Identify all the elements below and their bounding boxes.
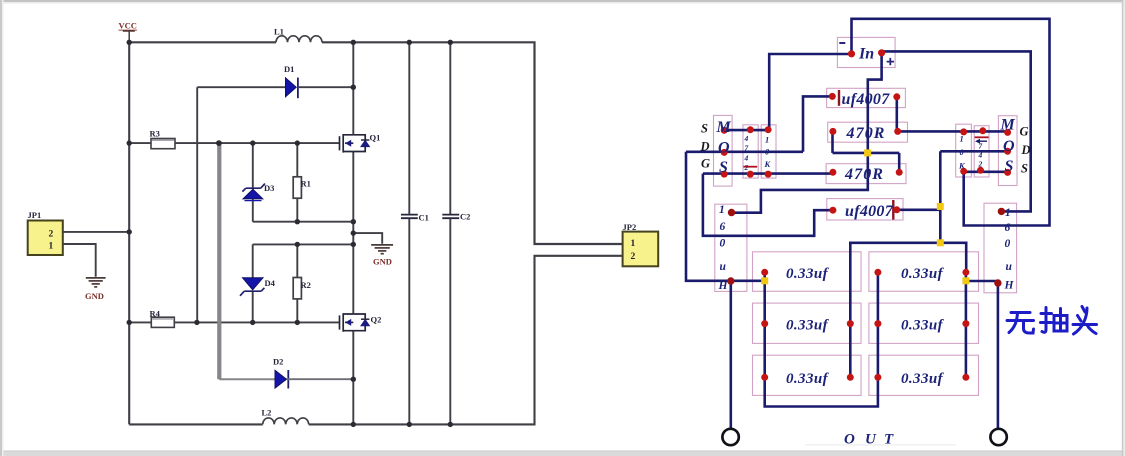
svg-text:O: O [718,140,730,157]
left 4742 digits [744,134,749,172]
zener D4 [240,278,264,296]
char wu [1011,311,1030,314]
left 4742 outline [743,125,758,178]
svg-text:M: M [1000,117,1016,134]
svg-text:M: M [716,119,732,136]
char tou [1082,307,1085,313]
svg-text:L2: L2 [262,408,272,418]
capacitor C1 [401,215,418,219]
inductor L1 [276,36,322,43]
zener band right 742 [975,136,989,138]
svg-text:1: 1 [49,242,54,252]
svg-text:R2: R2 [301,280,311,290]
svg-text:u: u [1006,261,1013,273]
wire: junction column [939,151,942,243]
svg-text:T: T [884,432,894,448]
svg-text:2: 2 [631,252,636,262]
wire: GND branch [353,233,382,244]
diode uf4007 top outline [827,88,906,107]
svg-text:S: S [701,122,708,136]
svg-text:470R: 470R [844,166,884,183]
right 10K digits [958,134,966,171]
svg-text:D: D [1021,143,1031,157]
wire: left MOS D row [686,151,803,154]
right 742 outline [974,126,989,177]
svg-text:R3: R3 [150,129,160,139]
resistor 470R #2 outline [826,164,906,184]
diode band uf4007 top [838,90,840,106]
wire: uf4007-top left pad to D row [803,96,832,151]
left MOS pin names [700,122,711,171]
svg-text:6: 6 [1005,222,1011,234]
right 160uH vertical label [1004,207,1015,292]
svg-text:1: 1 [765,135,769,145]
left 10K outline [761,125,776,178]
ground (JP1) [86,278,106,287]
zener D3 [242,184,265,201]
wire: D3 branch vertical [252,143,254,222]
svg-text:0.33uf: 0.33uf [901,371,945,387]
svg-text:1: 1 [960,134,964,144]
connector In outline [837,37,895,67]
svg-text:JP1: JP1 [28,210,42,220]
power VCC symbol [123,31,135,42]
svg-text:1: 1 [631,239,636,249]
wire: top rail right of L1 [322,42,623,244]
transistor Q2 [340,313,370,332]
resistor R3 [151,139,175,149]
resistor R2 [293,278,301,299]
yellow junctions [761,149,969,284]
svg-text:VCC: VCC [119,21,137,31]
left inductor 160uH outline [715,204,747,291]
svg-text:JP2: JP2 [623,222,637,232]
ground (right of Q1 source node) [371,245,393,254]
wire: bottom rail [129,423,263,425]
faint underline near OUT [805,444,956,445]
connector JP2 [623,232,659,267]
left 160uH vertical label [718,204,729,292]
plus sign [887,58,894,65]
right 10K outline [956,124,972,177]
right MOS designator [1000,117,1016,176]
svg-text:uf4007: uf4007 [842,91,891,108]
wire: R1 branch vertical [296,143,298,222]
wire: In- up over top to right MOS S row [852,19,1050,226]
char chou [1042,308,1046,333]
svg-text:In: In [858,46,874,63]
svg-text:0.33uf: 0.33uf [786,371,830,387]
capacitor C2 [442,215,459,219]
terminal circle right [990,429,1006,445]
wire: uf4007-bottom right pad to junction column [897,209,941,212]
wire: right inductor H pad to out terminal [997,283,1000,429]
svg-text:R4: R4 [150,309,161,319]
wire: left MOS source row to 470R2 [703,172,833,175]
wire: right MOS S row [964,171,1008,174]
svg-text:4: 4 [744,154,749,163]
left MOS designator [716,119,732,176]
wire: VCC top rail [129,41,276,43]
wire: In+ right loop to right inductor pin1 [884,51,1031,211]
wire: gray feedback vertical [217,143,221,379]
wire: source row down to uf4007-bottom left pad [703,174,833,236]
svg-text:6: 6 [720,221,726,233]
svg-text:1: 1 [1005,207,1011,219]
svg-text:O: O [844,432,855,448]
junction dots [127,40,453,427]
wire: 470R1 left pad stub [831,131,834,153]
svg-text:0: 0 [1005,238,1011,250]
pcb wires (navy) [686,19,1050,429]
arrow mark right 742 [977,140,987,142]
resistor R4 [151,317,174,327]
zener band left 4742 [743,166,757,168]
svg-text:C1: C1 [419,213,429,223]
labels 0.33uf [786,266,945,387]
svg-text:7: 7 [745,144,749,153]
svg-text:U: U [865,432,877,448]
diode D2 [275,370,288,389]
svg-text:D: D [700,140,710,154]
svg-text:GND: GND [85,291,104,301]
svg-text:S: S [1021,162,1028,176]
svg-text:uf4007: uf4007 [845,203,894,220]
svg-text:4: 4 [744,134,749,143]
label OUT [844,432,894,448]
svg-text:Q2: Q2 [371,315,382,325]
wire: In+ jog down to mid junction and left inductor pin1 [732,55,882,213]
diode D1 [286,78,298,99]
wire: JP2 pin1 feed [535,243,623,245]
svg-text:O: O [1003,138,1015,155]
right MOS pin names [1020,125,1031,176]
wire: uf4007-top right pad down to 470R1 [895,97,898,132]
resistor R1 [293,177,301,198]
svg-text:7: 7 [979,142,983,151]
wire: main center vertical (Q1 drain / Q2 source chain) [352,42,354,424]
svg-text:470R: 470R [846,125,886,142]
wire: junction row at y153 [833,152,900,155]
wire: left MOS M row [724,129,769,132]
svg-text:GND: GND [373,257,392,267]
left 10K digits [764,135,772,170]
svg-text:G: G [701,157,710,171]
svg-text:Q1: Q1 [370,133,381,143]
component outlines (pink) [714,37,1018,395]
svg-text:0.33uf: 0.33uf [901,266,945,282]
wire: D4 branch vertical [252,244,254,322]
annotation 无抽头 (no tap) drawn strokes [1007,307,1097,335]
resistor 470R #1 outline [828,122,908,142]
pads (dark red, inductors) [727,208,1005,287]
svg-text:0.33uf: 0.33uf [786,318,830,334]
wire: D row down to left cap bank [686,152,765,281]
wire: JP1 pin1 to ground [63,244,96,277]
wire: left cap left pad column loop [765,272,878,406]
svg-text:G: G [1020,125,1029,139]
wire: C1 branch [408,42,410,424]
diode band uf4007 bottom [892,200,894,220]
wire: gray D2 row left [219,378,275,380]
svg-text:2: 2 [978,160,983,169]
terminal circle left [722,429,738,445]
wire: left inductor H pad to out terminal [729,281,732,429]
svg-text:H: H [718,280,729,292]
svg-text:2: 2 [49,229,54,239]
svg-text:0.33uf: 0.33uf [786,266,830,282]
wire: C2 branch [449,42,451,424]
wire: left vertical rail from VCC [128,42,130,424]
svg-text:2: 2 [744,163,749,172]
right MOSFET outline [998,116,1017,186]
wire: D1 row [197,86,353,88]
right inductor 160uH outline [984,203,1017,293]
wire: 470R2 right pad stub [898,153,901,172]
wire: gate row to right MOS [898,130,1008,133]
svg-text:D3: D3 [264,183,274,193]
transistor Q1 [340,134,370,153]
svg-text:S: S [1005,158,1014,175]
wire: R4 gate row [129,321,339,323]
svg-text:L1: L1 [274,27,284,37]
wire: bottom rail right of L2 [309,256,623,425]
svg-text:D4: D4 [265,278,276,288]
svg-text:D1: D1 [284,64,294,74]
svg-text:H: H [1004,280,1015,292]
wire: junction to right inductor H pad [966,280,998,283]
wire: vertical from D1 anode to R4 row [196,87,198,322]
wire: In- left to left MOS M row [769,54,850,130]
svg-text:0.33uf: 0.33uf [901,318,945,334]
wire: right cap right pad column [965,272,968,377]
svg-text:4: 4 [978,151,983,160]
wire: R3 gate row [129,142,339,144]
wire: D row to right MOS D pad [940,150,1007,153]
left MOSFET outline [714,115,733,186]
wire: D3/R1 bottom row [253,221,353,223]
connector JP1 [28,221,63,256]
svg-text:0: 0 [720,238,726,250]
wire: D4/R2 top row [253,243,354,245]
capacitor 0.33uf outlines [753,252,862,291]
wire: R2 branch vertical [296,244,298,322]
svg-text:u: u [720,261,727,273]
wire: junction to cap columns [850,243,966,377]
svg-text:S: S [719,159,728,176]
inductor L2 [263,418,309,424]
svg-text:C2: C2 [460,212,470,222]
svg-text:D2: D2 [273,357,283,367]
minus sign [839,42,845,44]
wire: D2 row right [287,378,354,380]
pads (red) [721,49,1011,381]
wire: JP1 pin2 to rail [63,231,129,233]
svg-text:1: 1 [719,204,725,216]
svg-text:R1: R1 [301,179,311,189]
diode uf4007 bottom outline [827,199,903,220]
right 742 digits [978,142,983,169]
